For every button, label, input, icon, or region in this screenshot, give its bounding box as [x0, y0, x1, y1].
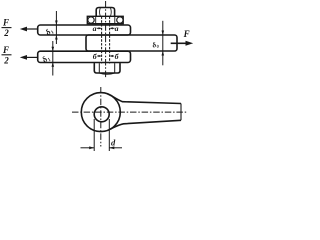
force F/2 top arrow [20, 27, 37, 32]
eye bar big circle [81, 93, 120, 132]
dimension d extension line left [93, 119, 95, 151]
nut chamfer arcs [99, 8, 102, 16]
top cover plate [38, 25, 131, 35]
svg-text:а: а [115, 24, 119, 33]
washer [87, 16, 123, 23]
bolt shank hidden line left [101, 17, 103, 64]
eye bar hole [94, 107, 109, 122]
force F/2 bottom arrow [20, 55, 37, 60]
svg-text:2: 2 [3, 55, 9, 65]
section a arrow left [97, 27, 102, 29]
washer facet line right [114, 16, 116, 24]
bolt head facet right [114, 64, 116, 73]
dimension delta1 bottom line [52, 41, 55, 76]
force F right arrow [171, 41, 194, 46]
eye bar horizontal centerline [72, 111, 187, 113]
washer left lobe [88, 17, 94, 23]
force F/2 bottom label [2, 45, 12, 66]
svg-text:F: F [183, 29, 190, 39]
nut upper body [96, 8, 114, 17]
bolt centerline [105, 1, 107, 79]
svg-text:F: F [2, 18, 9, 28]
washer facet line left [95, 16, 97, 24]
svg-text:а: а [93, 24, 97, 33]
bolt head facet left [98, 64, 100, 73]
svg-text:F: F [2, 45, 9, 55]
section b arrow right [109, 55, 114, 57]
washer right lobe [117, 17, 123, 23]
bolt shank hidden line right [109, 17, 111, 64]
bottom cover plate [38, 51, 131, 62]
eye bar shank bottom edge [111, 120, 182, 129]
dimension d line with arrows [81, 146, 123, 149]
middle plate [86, 35, 177, 51]
section a arrow right [109, 27, 114, 29]
eye bar shank top edge [107, 94, 181, 104]
eye bar end line [180, 104, 182, 121]
bolt head chamfer arc [99, 73, 114, 74]
dimension delta1 top line [55, 11, 58, 44]
force F/2 top label [2, 18, 12, 39]
dimension delta0 right line [162, 21, 165, 66]
eye bar vertical centerline [100, 87, 102, 147]
section b arrow left [97, 55, 102, 57]
svg-text:2: 2 [3, 28, 9, 38]
bolt head [94, 64, 120, 73]
dimension d extension line right [108, 119, 110, 151]
